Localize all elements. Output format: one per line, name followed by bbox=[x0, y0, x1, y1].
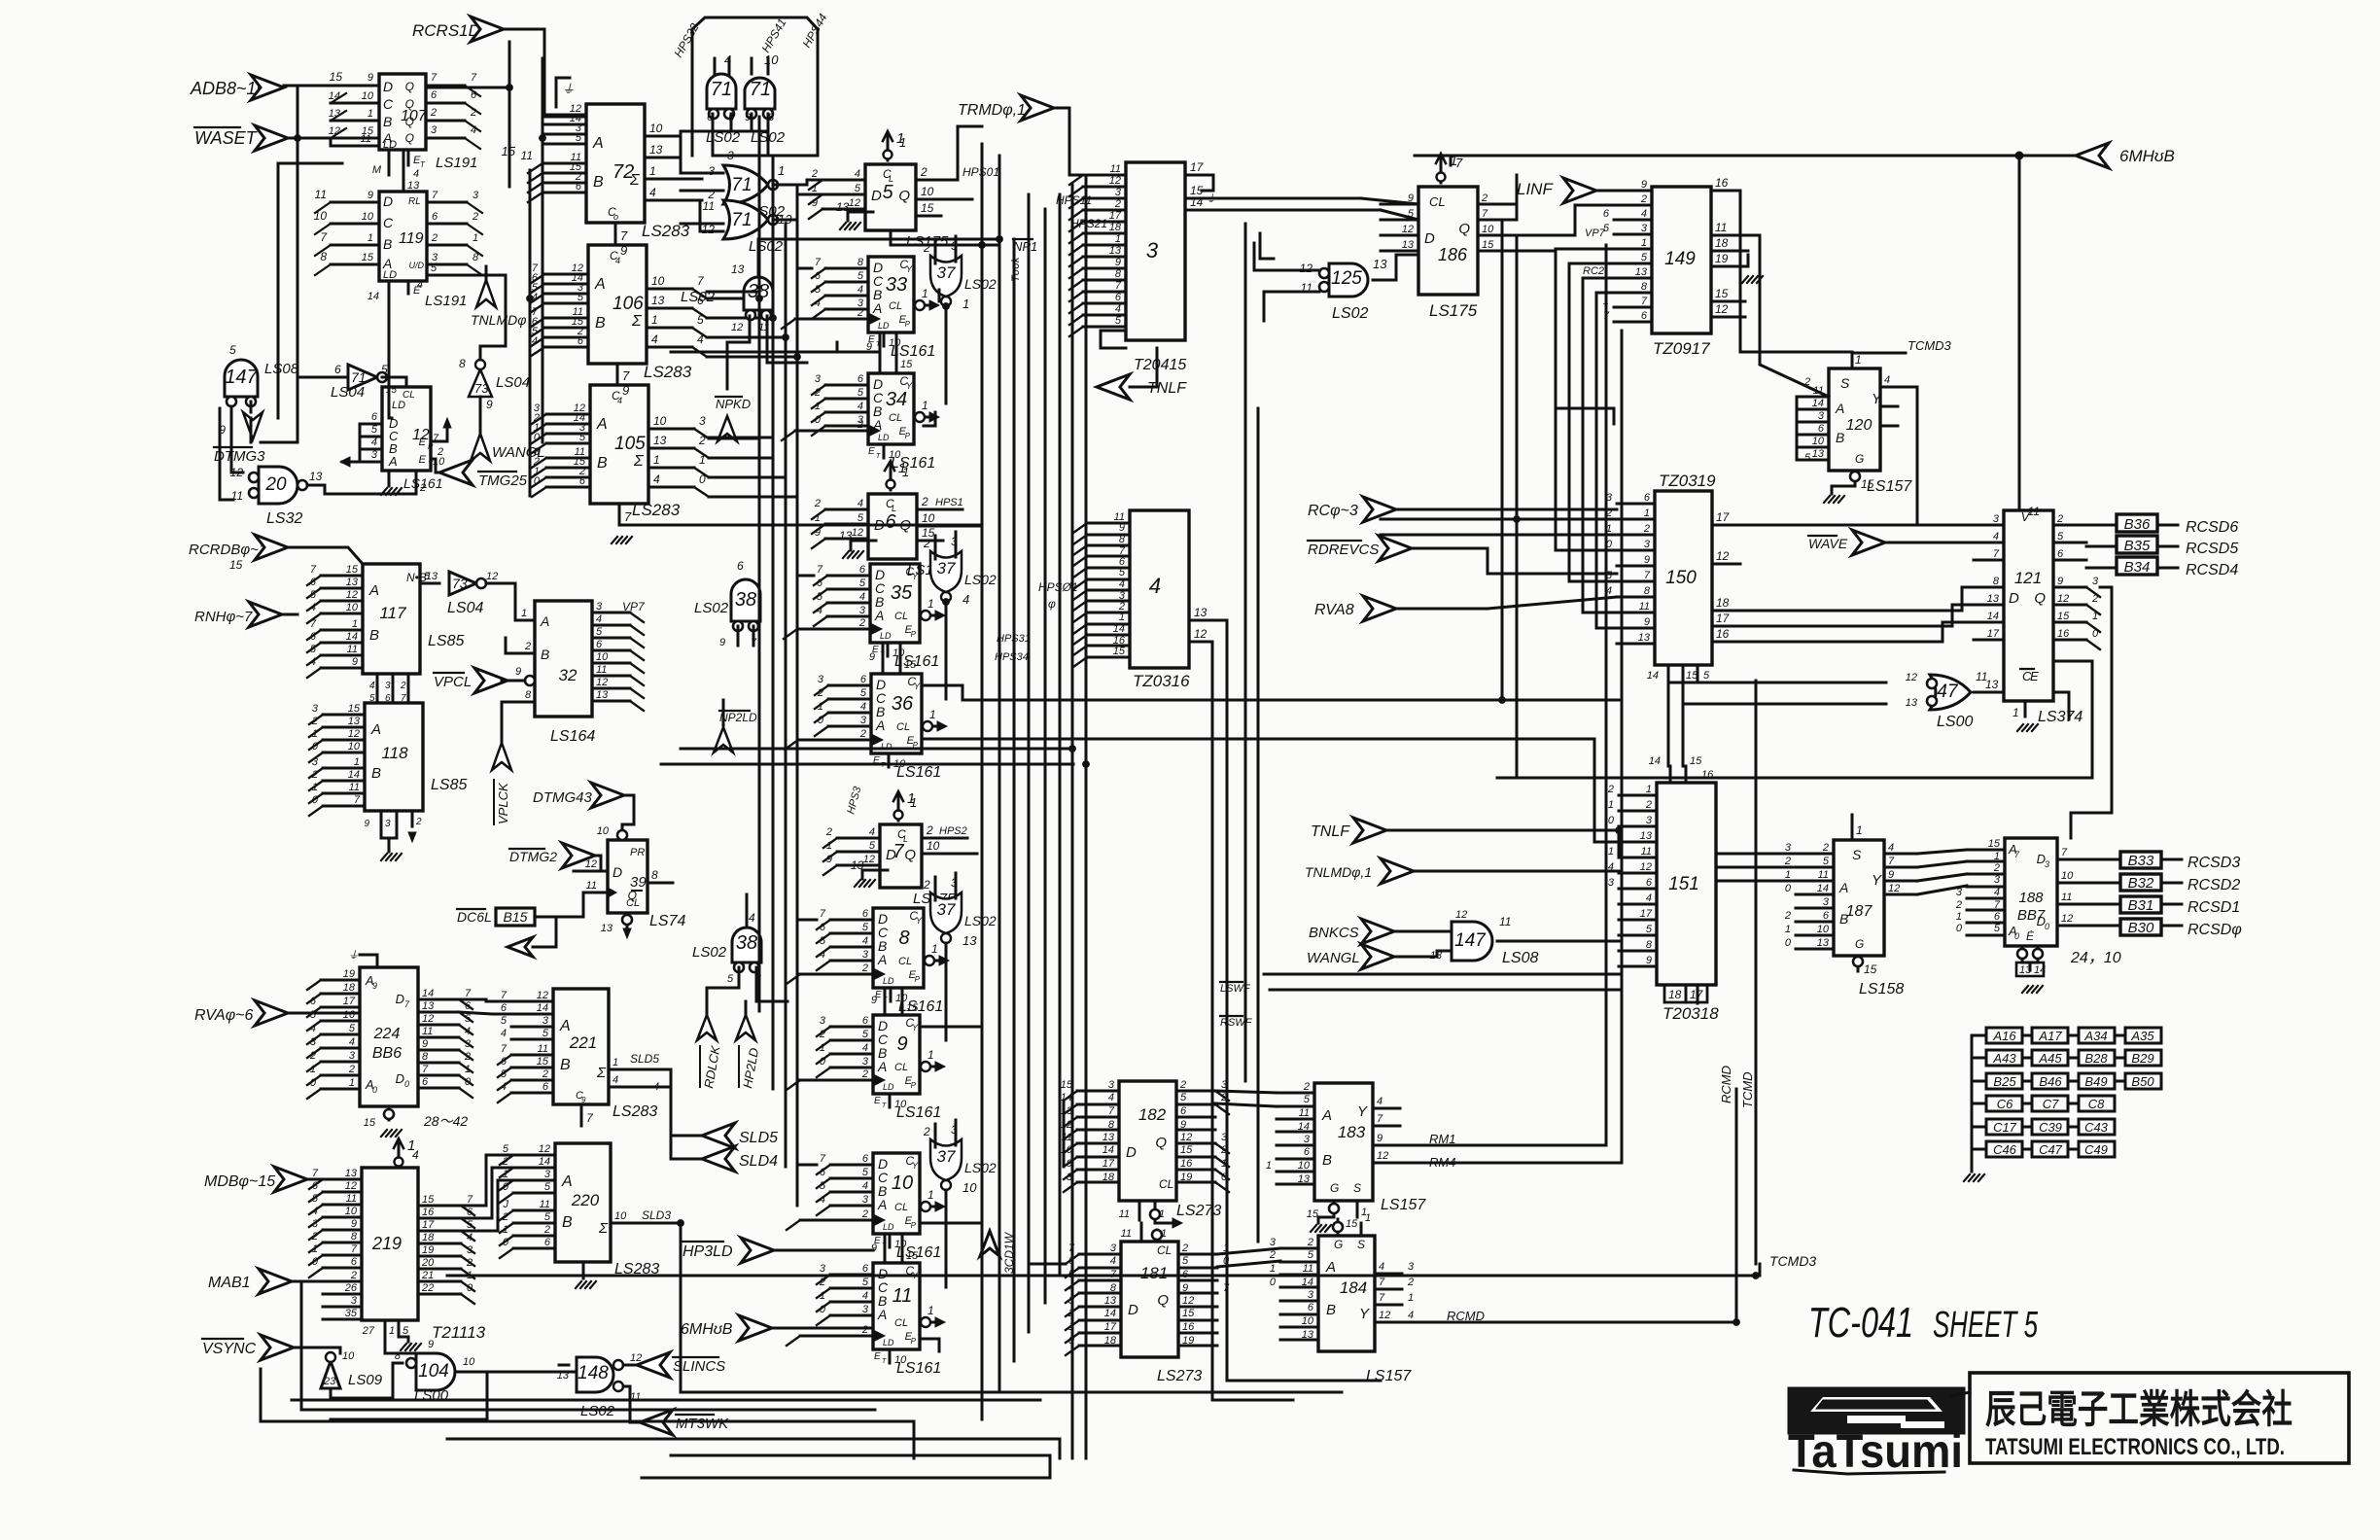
svg-text:Q: Q bbox=[1157, 1292, 1169, 1309]
flipflop IC 186 LS175 bbox=[1418, 187, 1478, 295]
IC 10 CL bubble out bbox=[920, 1206, 935, 1208]
wire 33 LD row horizontal bbox=[671, 351, 880, 354]
svg-text:0: 0 bbox=[310, 1077, 317, 1089]
svg-text:9: 9 bbox=[719, 637, 725, 648]
svg-text:10: 10 bbox=[894, 1099, 907, 1110]
title box border bbox=[1970, 1373, 2349, 1463]
IC 33 input stubs bbox=[825, 267, 868, 270]
IC 32 LS164 bbox=[535, 601, 592, 717]
svg-text:19: 19 bbox=[1715, 252, 1729, 265]
svg-text:5: 5 bbox=[1641, 252, 1648, 263]
svg-text:13: 13 bbox=[601, 923, 613, 934]
svg-text:TMG25: TMG25 bbox=[478, 472, 528, 489]
svg-text:11: 11 bbox=[703, 199, 715, 213]
svg-text:3: 3 bbox=[1110, 1242, 1117, 1254]
svg-text:TNLMDφ,1: TNLMDφ,1 bbox=[1305, 864, 1372, 880]
wire LS32 output to IC12 bbox=[307, 484, 325, 487]
svg-text:Q: Q bbox=[405, 131, 414, 145]
svg-text:13: 13 bbox=[1109, 245, 1122, 257]
IC 9 Et pin stub bbox=[889, 1094, 892, 1107]
gate 37 NOR LS02 vertical bbox=[930, 1139, 962, 1180]
svg-text:4: 4 bbox=[1646, 892, 1652, 904]
IC 72 carry out pin7 down bbox=[614, 223, 617, 245]
IC 12 pin2 bottom wire bbox=[415, 471, 418, 494]
svg-text:LS08: LS08 bbox=[264, 361, 299, 377]
svg-text:3: 3 bbox=[431, 124, 437, 136]
IC 219 left stubs bbox=[323, 1178, 362, 1181]
svg-text:D: D bbox=[1126, 1144, 1137, 1161]
svg-text:RCSD3: RCSD3 bbox=[2187, 855, 2240, 871]
svg-text:A: A bbox=[1835, 401, 1844, 416]
svg-text:5: 5 bbox=[310, 1009, 317, 1021]
svg-text:CL: CL bbox=[894, 1317, 908, 1329]
svg-text:2: 2 bbox=[817, 687, 823, 699]
svg-text:14: 14 bbox=[1102, 1144, 1114, 1156]
svg-text:Q: Q bbox=[898, 188, 910, 204]
Tatsumi logo block bbox=[1788, 1387, 1965, 1478]
svg-text:7: 7 bbox=[1482, 208, 1488, 220]
svg-text:1: 1 bbox=[521, 608, 527, 619]
wire 121 Q loop down bbox=[2071, 587, 2112, 838]
svg-text:5: 5 bbox=[2057, 531, 2064, 542]
svg-text:1: 1 bbox=[820, 1290, 825, 1302]
svg-text:3: 3 bbox=[1304, 1134, 1311, 1145]
svg-text:181: 181 bbox=[1140, 1264, 1168, 1282]
wire TNLF feed bbox=[1618, 830, 1621, 857]
svg-text:13: 13 bbox=[1373, 257, 1387, 271]
IC 181 right stubs bbox=[1178, 1253, 1217, 1256]
svg-text:6: 6 bbox=[501, 1002, 507, 1014]
svg-text:1: 1 bbox=[465, 1064, 471, 1075]
svg-text:10: 10 bbox=[894, 1354, 907, 1366]
svg-text:14: 14 bbox=[1817, 883, 1829, 894]
svg-text:13: 13 bbox=[345, 1168, 358, 1179]
IC 181 left stubs bbox=[1079, 1253, 1121, 1256]
svg-text:B34: B34 bbox=[2124, 559, 2151, 576]
label 6MHzB flag top right bbox=[2076, 143, 2109, 168]
svg-text:Q: Q bbox=[1155, 1135, 1167, 1151]
IC 117 bottom pins bbox=[376, 674, 379, 703]
svg-text:9: 9 bbox=[815, 527, 821, 539]
svg-text:RCSD2: RCSD2 bbox=[2187, 877, 2240, 893]
svg-text:D: D bbox=[612, 864, 622, 880]
svg-text:LS04: LS04 bbox=[447, 600, 483, 616]
svg-text:4: 4 bbox=[617, 396, 622, 405]
gate 38a bubble wires down bbox=[727, 316, 750, 389]
svg-text:10: 10 bbox=[463, 1356, 475, 1368]
IC 121 pin1 ground bbox=[2024, 701, 2027, 717]
svg-text:12: 12 bbox=[1402, 224, 1414, 235]
svg-text:TNLMDφ: TNLMDφ bbox=[471, 312, 526, 328]
svg-text:16: 16 bbox=[1715, 176, 1729, 190]
IC 36 clock input arrow bbox=[798, 739, 871, 742]
svg-text:14: 14 bbox=[1298, 1121, 1310, 1133]
svg-text:186: 186 bbox=[1438, 245, 1468, 264]
svg-text:1: 1 bbox=[312, 728, 318, 740]
wire D6 Q to bus bbox=[972, 525, 982, 528]
svg-text:104: 104 bbox=[418, 1361, 449, 1382]
svg-text:T: T bbox=[882, 1102, 887, 1109]
svg-text:LD: LD bbox=[878, 321, 890, 331]
IC 150 right stubs bbox=[1712, 524, 1740, 527]
svg-text:21: 21 bbox=[421, 1270, 434, 1281]
IC 221 right stubs SLD5 bbox=[609, 1068, 642, 1071]
svg-text:Q: Q bbox=[1458, 221, 1470, 237]
svg-text:2: 2 bbox=[502, 1156, 508, 1168]
svg-text:17: 17 bbox=[1987, 628, 2000, 640]
svg-text:RCMD: RCMD bbox=[1719, 1066, 1733, 1103]
IC 151 T20318 bbox=[1657, 783, 1716, 985]
svg-text:15: 15 bbox=[537, 1056, 549, 1067]
adder IC 72 LS283 bbox=[586, 104, 645, 223]
IC 34 input stubs bbox=[825, 384, 868, 387]
svg-text:4: 4 bbox=[697, 332, 704, 346]
IC 12 arrow on A input bbox=[342, 461, 360, 464]
svg-text:11: 11 bbox=[586, 880, 597, 892]
svg-text:1: 1 bbox=[1644, 507, 1650, 519]
svg-text:A: A bbox=[874, 608, 884, 623]
svg-text:LS02: LS02 bbox=[964, 572, 997, 587]
gate 71b vertical NAND bbox=[745, 78, 775, 109]
svg-text:辰己電子工業株式会社: 辰己電子工業株式会社 bbox=[1985, 1388, 2292, 1431]
svg-text:S: S bbox=[1852, 847, 1862, 862]
wire long from 182 Q to 183 bbox=[1215, 1091, 1277, 1093]
svg-text:HPS2: HPS2 bbox=[939, 825, 967, 837]
svg-text:14: 14 bbox=[346, 631, 358, 643]
svg-text:7: 7 bbox=[1108, 1105, 1115, 1117]
svg-text:2: 2 bbox=[415, 817, 422, 827]
svg-text:A45: A45 bbox=[2038, 1051, 2062, 1066]
IC 33 CL bubble out bbox=[914, 304, 929, 307]
svg-text:149: 149 bbox=[1664, 249, 1696, 269]
svg-text:RC2: RC2 bbox=[1583, 265, 1604, 277]
svg-text:T20318: T20318 bbox=[1662, 1004, 1719, 1023]
svg-text:12: 12 bbox=[348, 728, 360, 740]
svg-text:1: 1 bbox=[699, 453, 706, 467]
wire MAB1 long down bbox=[301, 1281, 875, 1410]
svg-text:15: 15 bbox=[1686, 670, 1698, 682]
svg-text:B: B bbox=[383, 236, 392, 252]
svg-text:4: 4 bbox=[869, 826, 875, 838]
svg-text:LS02: LS02 bbox=[692, 944, 727, 961]
svg-text:3: 3 bbox=[1641, 223, 1648, 234]
svg-text:7: 7 bbox=[432, 190, 438, 201]
svg-text:P: P bbox=[911, 1081, 917, 1090]
IC 106 carry pin7 down bbox=[616, 364, 619, 385]
svg-text:0: 0 bbox=[2045, 922, 2049, 931]
connector grid ground bbox=[1971, 1161, 1974, 1172]
svg-text:13: 13 bbox=[1812, 448, 1825, 460]
svg-text:B: B bbox=[595, 315, 606, 332]
wire from IC119 LD down bbox=[389, 303, 392, 418]
IC 10 Et pin stub bbox=[889, 1234, 892, 1247]
svg-text:RCSD4: RCSD4 bbox=[2186, 562, 2238, 578]
wire 104 out to 148 bbox=[455, 1371, 577, 1374]
svg-text:LS175: LS175 bbox=[1429, 301, 1478, 320]
svg-text:B: B bbox=[1836, 430, 1844, 445]
DC6L left-pointing arrow below bbox=[507, 937, 533, 957]
svg-text:LS02: LS02 bbox=[694, 600, 729, 616]
svg-text:LS04: LS04 bbox=[331, 384, 365, 401]
svg-text:37: 37 bbox=[937, 559, 956, 577]
svg-text:5: 5 bbox=[544, 1181, 551, 1193]
svg-text:1: 1 bbox=[2012, 706, 2019, 719]
connector row B25/B46/B49/B50 bbox=[1972, 1080, 1986, 1083]
svg-text:6: 6 bbox=[1115, 292, 1122, 303]
wire RM vertical 2 bbox=[1424, 331, 1622, 1163]
IC 183 left stubs bbox=[1277, 1092, 1314, 1095]
svg-text:12: 12 bbox=[1300, 262, 1313, 275]
svg-text:10: 10 bbox=[962, 1180, 977, 1195]
IC 33 clock input arrow bbox=[795, 318, 868, 321]
wire vertical bus line 6 bbox=[1059, 194, 1062, 1274]
dash between logo and title box bbox=[1952, 1392, 1970, 1396]
svg-text:D: D bbox=[871, 188, 882, 204]
svg-text:17: 17 bbox=[343, 996, 356, 1007]
svg-text:Y: Y bbox=[1872, 391, 1882, 407]
svg-text:16: 16 bbox=[422, 1207, 435, 1218]
IC 9 input stubs bbox=[830, 1026, 873, 1029]
svg-text:2: 2 bbox=[543, 1224, 550, 1236]
svg-text:A: A bbox=[596, 416, 608, 433]
flipflop IC D7 LS175 bbox=[880, 824, 922, 888]
svg-text:1: 1 bbox=[927, 1304, 934, 1317]
IC 3 right stubs bbox=[1185, 174, 1213, 177]
svg-text:2: 2 bbox=[1303, 1081, 1310, 1093]
svg-text:9: 9 bbox=[2057, 576, 2063, 587]
svg-text:4: 4 bbox=[857, 284, 863, 296]
svg-text:3: 3 bbox=[544, 1169, 551, 1180]
svg-text:125: 125 bbox=[1331, 268, 1362, 289]
svg-text:3: 3 bbox=[542, 1015, 549, 1027]
svg-text:1: 1 bbox=[653, 453, 660, 467]
svg-text:16: 16 bbox=[2057, 628, 2070, 640]
IC 32 B input pin2 bbox=[506, 652, 535, 655]
svg-text:7: 7 bbox=[310, 618, 317, 630]
svg-text:5: 5 bbox=[857, 512, 864, 524]
connector row A43/A45/B28/B29 bbox=[1972, 1057, 1986, 1060]
inverter 73 LS04 right of 117 bbox=[449, 572, 476, 595]
svg-text:6: 6 bbox=[577, 335, 584, 347]
svg-text:5: 5 bbox=[859, 577, 866, 589]
output flag TMG25 bbox=[439, 460, 472, 485]
svg-text:3: 3 bbox=[818, 674, 824, 685]
svg-text:13: 13 bbox=[407, 180, 420, 192]
svg-text:9: 9 bbox=[352, 656, 358, 668]
svg-text:A: A bbox=[561, 1173, 573, 1190]
IC 36 Et pin stub bbox=[888, 753, 891, 767]
svg-text:0: 0 bbox=[534, 475, 541, 487]
svg-text:10: 10 bbox=[1298, 1160, 1311, 1172]
svg-text:3: 3 bbox=[1108, 1079, 1115, 1091]
svg-text:D: D bbox=[396, 1071, 404, 1086]
wire 186 Q to 149 route bbox=[1505, 205, 1614, 235]
svg-text:LS191: LS191 bbox=[425, 293, 467, 309]
IC 11 Et pin stub bbox=[889, 1349, 892, 1363]
svg-text:106: 106 bbox=[612, 294, 644, 314]
IC 39 CL bubble bottom bbox=[626, 913, 629, 928]
svg-text:13: 13 bbox=[653, 434, 667, 447]
wire 36 to right long bbox=[924, 739, 1619, 842]
svg-text:12: 12 bbox=[1377, 1150, 1388, 1162]
wire IC120 Y to IC121 bbox=[1898, 387, 1974, 525]
svg-text:MT3WK: MT3WK bbox=[676, 1416, 729, 1432]
svg-text:B: B bbox=[383, 114, 392, 129]
svg-text:13: 13 bbox=[1104, 1295, 1117, 1307]
svg-text:11: 11 bbox=[347, 644, 358, 655]
svg-text:8: 8 bbox=[472, 252, 479, 263]
wire SLD3 route bbox=[681, 1223, 1342, 1392]
wire 36 right wires bbox=[924, 685, 962, 700]
svg-text:6: 6 bbox=[1641, 310, 1648, 322]
IC 221 LS283 bbox=[553, 989, 609, 1104]
svg-text:6: 6 bbox=[310, 631, 317, 643]
svg-text:LS191: LS191 bbox=[436, 155, 477, 171]
connector B36 box bbox=[2117, 514, 2157, 532]
svg-text:1: 1 bbox=[815, 512, 821, 524]
svg-text:13: 13 bbox=[1987, 593, 2000, 605]
svg-text:13: 13 bbox=[1635, 266, 1648, 278]
IC 119 output stubs bbox=[427, 201, 467, 204]
svg-text:Y: Y bbox=[906, 264, 913, 274]
svg-text:7: 7 bbox=[817, 564, 823, 576]
wire vertical bus line 3 bbox=[1013, 239, 1016, 1361]
wire TCMD vertical bbox=[1755, 681, 1758, 1264]
svg-text:14: 14 bbox=[1113, 623, 1125, 635]
connector B32 box bbox=[2120, 874, 2161, 891]
svg-text:14: 14 bbox=[422, 988, 434, 999]
svg-text:6MHʊB: 6MHʊB bbox=[681, 1321, 733, 1338]
svg-text:MDBφ~15: MDBφ~15 bbox=[204, 1173, 275, 1190]
IC 36 CL bubble out bbox=[922, 725, 937, 728]
svg-text:5: 5 bbox=[860, 687, 867, 699]
svg-text:NPKD: NPKD bbox=[716, 397, 751, 411]
wire 186 Q vertical run b bbox=[1516, 175, 1519, 204]
wire vertical at 1294 bbox=[1257, 408, 1260, 1242]
svg-text:Y: Y bbox=[914, 682, 921, 691]
IC 39 clock input bbox=[583, 892, 608, 894]
wire 219 bottom to LS00 bbox=[385, 1337, 416, 1359]
svg-text:3: 3 bbox=[1115, 187, 1122, 198]
svg-text:13: 13 bbox=[329, 108, 341, 120]
svg-text:LS273: LS273 bbox=[1157, 1368, 1202, 1384]
svg-text:4: 4 bbox=[1888, 842, 1894, 854]
IC 12 ground below bbox=[388, 471, 391, 486]
IC 149 right stubs bbox=[1711, 190, 1740, 192]
IC 151 bottom small boxes 18 17 bbox=[1664, 985, 1686, 1002]
svg-text:5: 5 bbox=[579, 432, 586, 443]
IC 8 clock input arrow bbox=[800, 973, 873, 976]
svg-text:35: 35 bbox=[891, 582, 913, 604]
svg-text:Ė: Ė bbox=[2026, 929, 2035, 943]
svg-text:10: 10 bbox=[1482, 224, 1494, 235]
IC 35 Et pin stub bbox=[887, 643, 890, 656]
svg-text:187: 187 bbox=[1846, 903, 1873, 920]
svg-text:0: 0 bbox=[467, 1282, 473, 1294]
svg-text:71: 71 bbox=[731, 210, 752, 230]
svg-text:3: 3 bbox=[312, 756, 319, 768]
svg-text:10: 10 bbox=[892, 1172, 913, 1194]
svg-text:CL: CL bbox=[402, 390, 415, 401]
svg-text:5: 5 bbox=[1804, 452, 1811, 464]
svg-text:4: 4 bbox=[312, 1206, 318, 1217]
svg-text:7: 7 bbox=[1379, 1277, 1385, 1288]
svg-text:2: 2 bbox=[311, 1231, 318, 1242]
svg-text:2: 2 bbox=[1407, 1277, 1414, 1288]
svg-text:4: 4 bbox=[615, 256, 620, 265]
IC D6 Q outputs bbox=[917, 508, 962, 511]
svg-text:10: 10 bbox=[614, 1210, 627, 1222]
wire 11 CL to bottom bbox=[920, 1339, 939, 1351]
wire 181 CL from left bbox=[1031, 1263, 1066, 1266]
svg-text:12: 12 bbox=[329, 125, 340, 137]
svg-text:2: 2 bbox=[819, 1277, 825, 1288]
svg-text:B36: B36 bbox=[2124, 516, 2151, 533]
gate 37 output wire down bbox=[945, 943, 948, 1040]
svg-text:10: 10 bbox=[314, 209, 328, 223]
svg-text:17: 17 bbox=[1102, 1158, 1115, 1170]
IC 3 bottom notch wire bbox=[1101, 331, 1126, 348]
svg-text:HP3LD: HP3LD bbox=[682, 1243, 733, 1260]
svg-text:4: 4 bbox=[310, 602, 316, 613]
svg-text:14: 14 bbox=[1104, 1308, 1116, 1319]
svg-text:5: 5 bbox=[371, 424, 378, 436]
svg-text:1: 1 bbox=[367, 232, 373, 244]
svg-text:T21113: T21113 bbox=[432, 1323, 486, 1342]
svg-text:1: 1 bbox=[962, 297, 969, 311]
wire 181 to 184 bbox=[1217, 1248, 1280, 1254]
svg-text:5: 5 bbox=[503, 1143, 509, 1155]
svg-text:14: 14 bbox=[1649, 755, 1661, 767]
wire IVASET vertical run down-left bbox=[278, 163, 342, 418]
IC 187 Y stubs bbox=[1884, 853, 1917, 856]
wire RCMD vertical bbox=[1439, 1089, 1736, 1322]
svg-text:14: 14 bbox=[1987, 611, 1999, 622]
IC 219 T21113 bbox=[362, 1168, 418, 1320]
svg-text:A: A bbox=[1325, 1259, 1336, 1276]
svg-text:16: 16 bbox=[1716, 627, 1730, 641]
wire bus into 33 fan bbox=[797, 267, 812, 270]
IC 11 clock input arrow bbox=[800, 1335, 873, 1338]
gate 37 input wires bbox=[934, 877, 937, 900]
svg-text:8: 8 bbox=[1993, 576, 2000, 587]
svg-text:E: E bbox=[2030, 669, 2039, 683]
svg-text:6: 6 bbox=[544, 1237, 551, 1248]
wire bottom bundle 2 bbox=[447, 1420, 914, 1423]
svg-text:2: 2 bbox=[861, 1208, 868, 1220]
svg-text:8: 8 bbox=[1644, 585, 1651, 597]
svg-text:1: 1 bbox=[927, 1188, 934, 1202]
svg-text:E: E bbox=[868, 446, 875, 457]
svg-text:VPCL: VPCL bbox=[434, 674, 472, 690]
svg-text:2: 2 bbox=[542, 1068, 548, 1080]
svg-text:4: 4 bbox=[857, 498, 863, 509]
svg-text:0: 0 bbox=[1270, 1277, 1277, 1288]
svg-text:12: 12 bbox=[2061, 913, 2073, 925]
svg-text:13: 13 bbox=[1298, 1173, 1311, 1185]
svg-text:A: A bbox=[875, 717, 885, 733]
svg-text:NP1: NP1 bbox=[1013, 239, 1037, 254]
IC 35 CL bubble out bbox=[920, 614, 935, 617]
svg-text:5: 5 bbox=[857, 387, 864, 399]
svg-text:4: 4 bbox=[1641, 208, 1647, 220]
wire inverter to IC12 CL bbox=[382, 376, 406, 379]
IC 120 LS157 bbox=[1829, 368, 1880, 471]
svg-text:5: 5 bbox=[817, 591, 823, 603]
svg-text:0: 0 bbox=[503, 1181, 509, 1193]
svg-text:RCSDφ: RCSDφ bbox=[2187, 922, 2242, 938]
svg-text:1: 1 bbox=[1408, 1292, 1414, 1304]
